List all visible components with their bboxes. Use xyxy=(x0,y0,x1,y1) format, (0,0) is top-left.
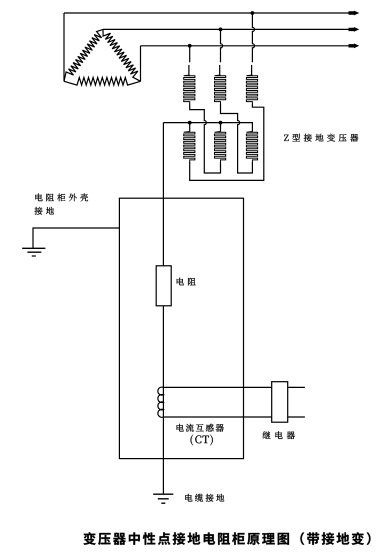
box resistance cabinet xyxy=(119,198,243,458)
wire tap 2 upper xyxy=(221,29,223,62)
wire CT bottom to relay xyxy=(163,416,271,418)
wire tap 1 upper xyxy=(189,46,191,63)
wire tap 2 lower xyxy=(219,65,221,75)
wire delta left vertical xyxy=(63,13,65,81)
wire tap 3 upper xyxy=(252,13,254,62)
wire neutral bus xyxy=(163,123,252,132)
wire cabinet shell to ground xyxy=(33,228,119,248)
coil transformer upper winding 2 xyxy=(215,75,226,104)
label cabinet shell line1 电阻柜外壳 xyxy=(35,194,88,202)
label 继电器 xyxy=(263,431,295,439)
wire CT primary through xyxy=(162,387,164,417)
label cabinet shell line2 接地 xyxy=(35,207,54,215)
wire upper1 jog to lower2 xyxy=(190,104,221,174)
coil transformer upper winding 3 xyxy=(246,75,257,104)
coil transformer upper winding 1 xyxy=(184,75,195,104)
label 电缆接地 xyxy=(185,494,224,502)
wire phase line A (top) xyxy=(64,12,351,14)
wire tap 1 lower xyxy=(188,65,190,75)
wire delta right vertical xyxy=(140,46,142,82)
label (CT) xyxy=(191,435,213,446)
wire resistor to CT xyxy=(162,306,164,388)
wire CT to cable ground xyxy=(162,417,164,494)
wire relay out bottom xyxy=(288,416,305,418)
relay K xyxy=(272,382,288,423)
wire upper3 outer loop to lower1 xyxy=(190,104,264,181)
coil current transformer CT xyxy=(158,387,164,417)
junction dot tap1 on phase C xyxy=(188,44,192,48)
wire lower1 top stem xyxy=(189,123,191,132)
wire relay out top xyxy=(288,386,305,388)
resistor R xyxy=(156,266,171,306)
title caption xyxy=(84,532,371,545)
wire neutral down xyxy=(162,123,164,266)
ground symbol shell xyxy=(22,248,45,256)
junction dot tap3 on phase A xyxy=(251,11,255,15)
junction dot bus-lower1 xyxy=(188,121,192,125)
wire phase line C (bottom) xyxy=(141,45,352,47)
winding delta right side xyxy=(103,29,141,81)
label 电流互感器 xyxy=(177,424,224,432)
coil transformer lower winding 2 xyxy=(215,132,226,163)
wire lower2 top stem xyxy=(220,123,222,132)
wire phase line B (middle) xyxy=(103,28,351,30)
ground symbol cable xyxy=(153,494,173,503)
junction dot tap2 on phase B xyxy=(219,28,223,32)
winding delta base xyxy=(64,78,141,86)
arrowhead phase A xyxy=(349,11,360,16)
arrowhead phase B xyxy=(349,27,360,32)
label 电阻 xyxy=(177,278,196,286)
coil transformer lower winding 3 xyxy=(246,132,257,163)
coil transformer lower winding 1 xyxy=(184,132,195,163)
arrowhead phase C xyxy=(349,43,360,48)
wire tap 3 lower xyxy=(251,65,253,75)
winding delta left side xyxy=(64,29,103,81)
wire upper2 jog to lower3 xyxy=(221,104,253,174)
label Z型接地变压器 xyxy=(284,134,358,142)
junction dot bus-lower2 xyxy=(219,121,223,125)
wire CT top to relay xyxy=(163,386,271,388)
